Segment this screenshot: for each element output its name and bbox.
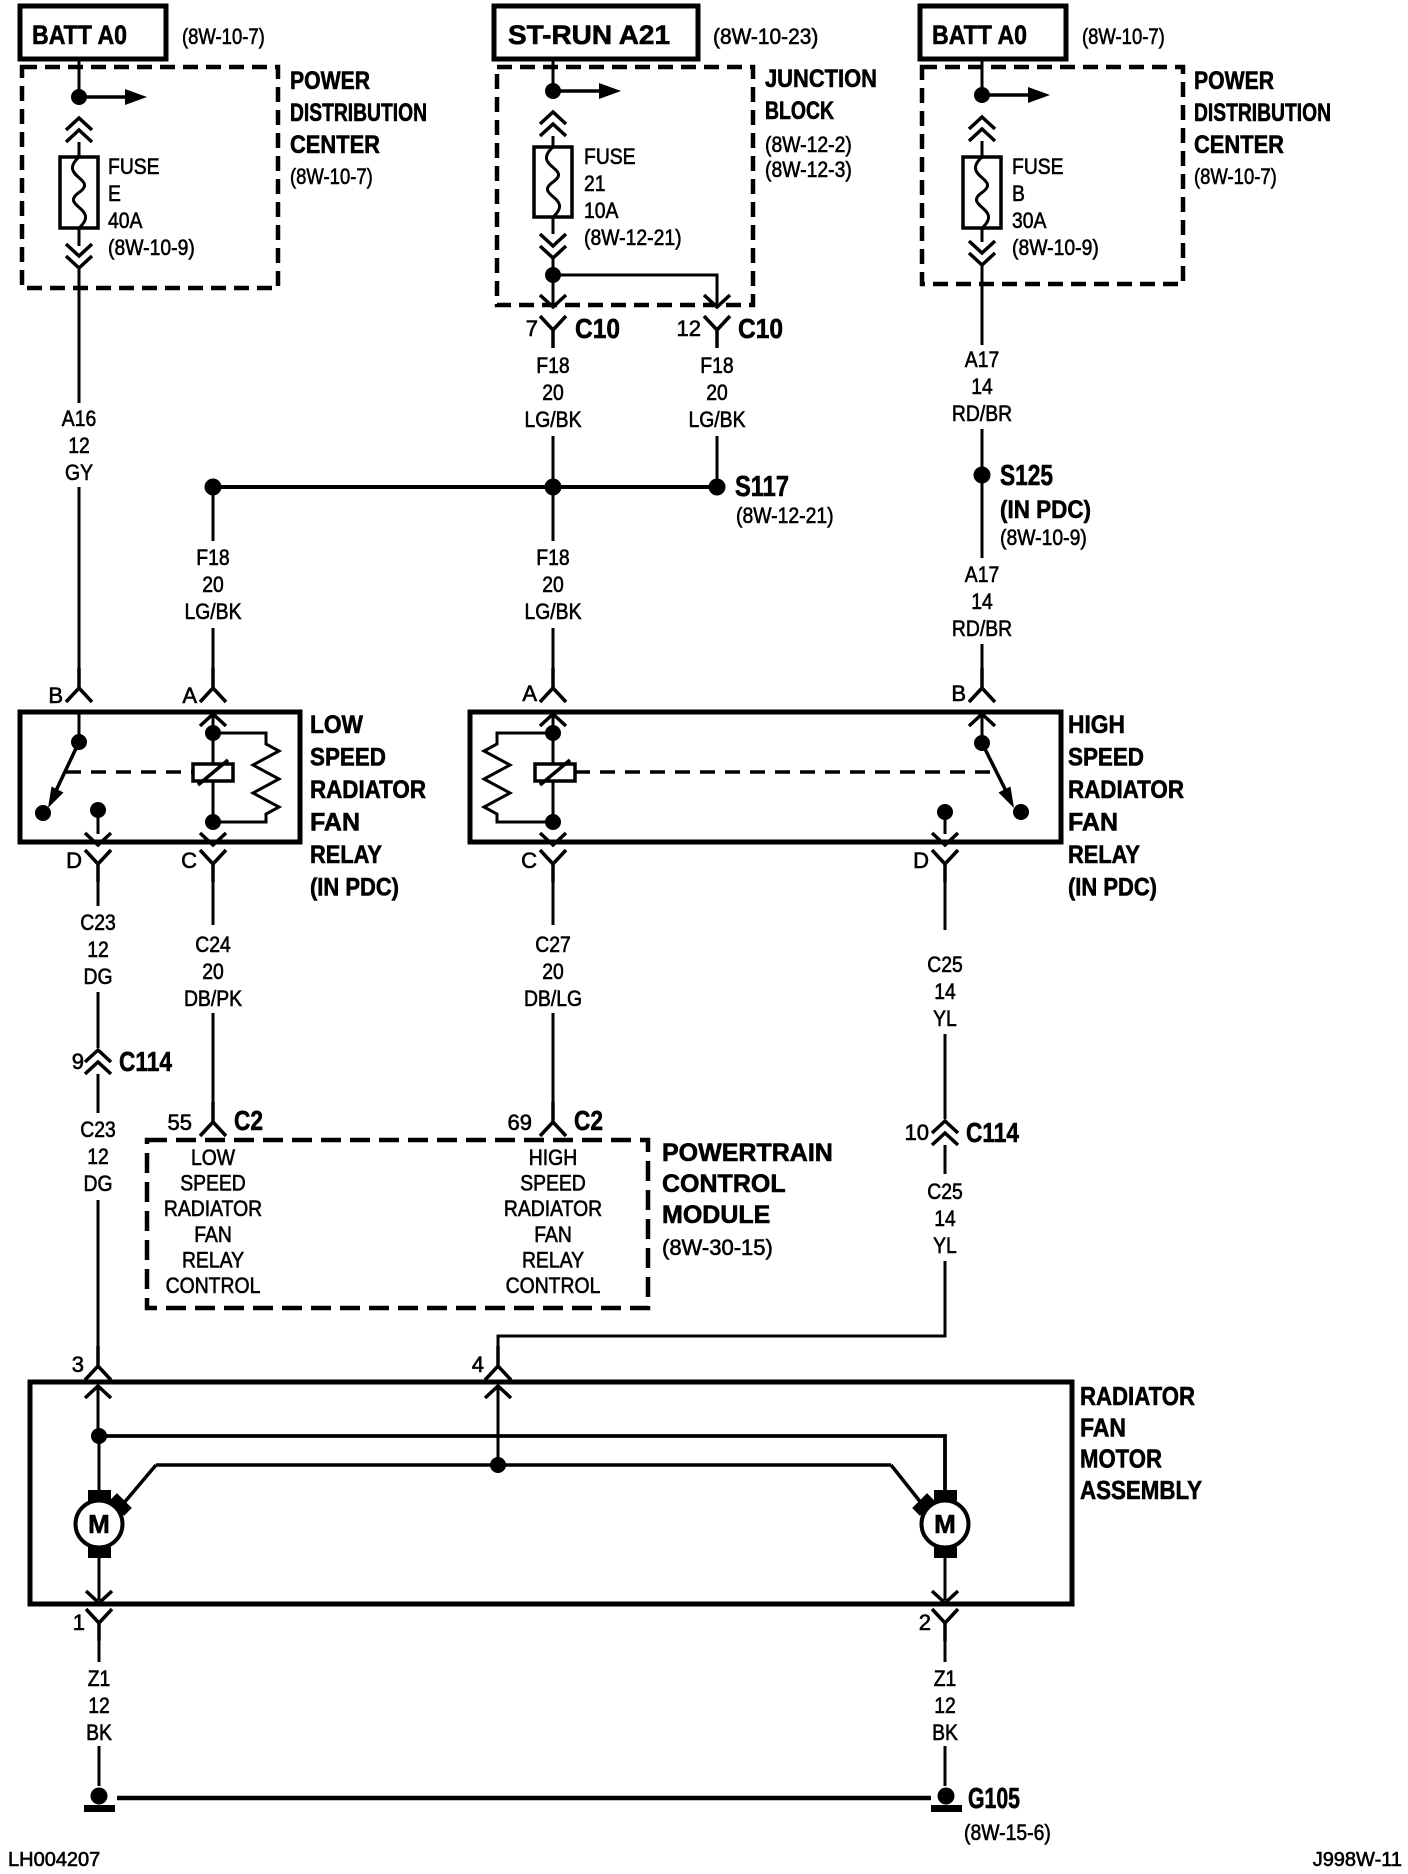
svg-text:C25: C25	[927, 952, 963, 977]
switch common contact (high relay)	[974, 735, 990, 751]
svg-text:A17: A17	[965, 562, 999, 587]
svg-text:14: 14	[971, 589, 993, 614]
chevron C10 pin 12 at junction block edge	[704, 295, 730, 307]
svg-text:21: 21	[584, 171, 606, 196]
svg-text:(8W-12-2): (8W-12-2)	[765, 132, 852, 157]
svg-text:(8W-15-6): (8W-15-6)	[964, 1820, 1051, 1845]
chevron pin D at high relay edge	[932, 833, 958, 845]
pin A half (high speed relay)	[540, 668, 566, 702]
svg-text:HIGH: HIGH	[529, 1145, 577, 1170]
pin 55 half of C2	[200, 1102, 226, 1136]
wire fuse E output leaving PDC (left)	[78, 268, 81, 403]
svg-text:FUSE: FUSE	[1012, 154, 1064, 179]
chevron pin 3 inside motor box	[85, 1386, 111, 1398]
svg-text:40A: 40A	[108, 208, 143, 233]
chevron pin A inside low relay	[200, 714, 226, 726]
svg-text:POWER: POWER	[290, 67, 370, 95]
switch arm (low relay)	[48, 742, 79, 808]
svg-text:(8W-12-21): (8W-12-21)	[736, 503, 834, 528]
svg-text:(8W-10-7): (8W-10-7)	[1194, 164, 1277, 189]
svg-text:1: 1	[73, 1610, 85, 1635]
wire contact D to edge (high)	[944, 812, 947, 834]
svg-text:20: 20	[706, 380, 728, 405]
junction block box (dashed)	[497, 67, 753, 305]
svg-text:14: 14	[934, 979, 956, 1004]
svg-text:A17: A17	[965, 347, 999, 372]
pin 4 half (motor assembly)	[485, 1346, 511, 1380]
svg-text:FAN: FAN	[1068, 809, 1118, 837]
svg-text:(IN PDC): (IN PDC)	[1068, 874, 1157, 902]
svg-text:SPEED: SPEED	[520, 1171, 586, 1196]
svg-text:C2: C2	[574, 1105, 603, 1136]
pin C half (low relay)	[200, 850, 226, 882]
svg-text:(IN PDC): (IN PDC)	[1000, 496, 1091, 524]
wire S125 to label	[981, 483, 984, 558]
ground terminal left	[84, 1788, 115, 1813]
connector chevrons below fuse E	[66, 244, 92, 268]
svg-text:C23: C23	[80, 910, 116, 935]
chevron pin B inside high relay	[969, 714, 995, 726]
pin C half (high relay)	[540, 850, 566, 882]
node fuse 21 output	[545, 267, 561, 283]
power feed box BATT A0 (left)	[20, 6, 166, 59]
wire relay D to label (left chain)	[97, 882, 100, 906]
svg-text:(8W-30-15): (8W-30-15)	[662, 1235, 773, 1260]
connector chevrons below fuse B	[969, 241, 995, 265]
svg-text:C114: C114	[966, 1117, 1019, 1148]
bus wire pin 4 to both motors	[156, 1463, 891, 1467]
svg-text:12: 12	[87, 1144, 109, 1169]
chevron C10 pin 7 at junction block edge	[540, 295, 566, 307]
svg-text:LG/BK: LG/BK	[525, 599, 582, 624]
svg-text:F18: F18	[536, 545, 569, 570]
switch common contact (low relay)	[71, 734, 87, 750]
label S117	[735, 471, 834, 528]
ground G105	[931, 1788, 962, 1813]
wire C10-12 to splice S117	[716, 436, 719, 479]
wire node to left motor	[98, 1436, 101, 1494]
svg-text:C10: C10	[738, 313, 783, 344]
svg-text:(8W-10-7): (8W-10-7)	[182, 24, 265, 49]
svg-text:F18: F18	[536, 353, 569, 378]
svg-text:C23: C23	[80, 1117, 116, 1142]
wire Z1 to ground G105 (left)	[98, 1746, 101, 1786]
splice S117	[709, 479, 726, 496]
svg-text:GY: GY	[65, 460, 93, 485]
svg-text:CONTROL: CONTROL	[506, 1273, 601, 1298]
fuse 21	[534, 147, 572, 217]
svg-text:30A: 30A	[1012, 208, 1047, 233]
svg-text:C114: C114	[119, 1046, 172, 1077]
wire relay C to label (C24)	[212, 882, 215, 925]
splice dot left branch	[205, 479, 222, 496]
connector chevrons above fuse B	[969, 117, 995, 141]
svg-text:(8W-10-7): (8W-10-7)	[290, 164, 373, 189]
svg-text:(8W-12-3): (8W-12-3)	[765, 157, 852, 182]
pin D half (low relay)	[85, 850, 111, 882]
svg-text:LG/BK: LG/BK	[525, 407, 582, 432]
svg-text:DG: DG	[84, 964, 113, 989]
radiator fan motor assembly box	[30, 1382, 1072, 1604]
chevron pin 4 inside motor box	[485, 1386, 511, 1398]
svg-text:RELAY: RELAY	[1068, 841, 1140, 869]
svg-text:20: 20	[202, 572, 224, 597]
relay coil (low)	[193, 760, 233, 785]
wire BATT A0 to node (right)	[981, 59, 984, 92]
wire right motor to pin 2	[944, 1558, 947, 1600]
svg-text:RADIATOR: RADIATOR	[1080, 1381, 1195, 1411]
svg-text:RADIATOR: RADIATOR	[1068, 776, 1184, 804]
svg-text:Z1: Z1	[934, 1666, 957, 1691]
wire relay C to label (C27)	[552, 882, 555, 925]
wire C25 to motor pin 4	[498, 1261, 945, 1352]
svg-text:ST-RUN A21: ST-RUN A21	[508, 20, 670, 50]
wire coil to lower node (high)	[552, 781, 555, 822]
svg-text:DISTRIBUTION: DISTRIBUTION	[290, 99, 427, 127]
svg-text:POWERTRAIN: POWERTRAIN	[662, 1139, 833, 1167]
svg-text:C: C	[521, 848, 537, 873]
switch arm (high relay)	[982, 743, 1014, 808]
relay coil dashed actuator line (high)	[575, 770, 990, 774]
pin 7 half of C10	[540, 316, 566, 348]
svg-text:POWER: POWER	[1194, 67, 1274, 95]
label POWER DISTRIBUTION CENTER (left)	[290, 67, 427, 189]
splice dot center branch	[545, 479, 562, 496]
switch normally-open contact (low relay)	[35, 805, 51, 821]
contact D node (low relay)	[90, 802, 106, 818]
svg-text:14: 14	[934, 1206, 956, 1231]
svg-text:C27: C27	[535, 932, 571, 957]
svg-text:20: 20	[542, 959, 564, 984]
svg-text:69: 69	[508, 1110, 532, 1135]
label FUSE B 30A	[1012, 154, 1099, 260]
svg-text:BK: BK	[86, 1720, 112, 1745]
switch normally-open contact (high relay)	[1013, 804, 1029, 820]
svg-text:(8W-10-9): (8W-10-9)	[1012, 235, 1099, 260]
pin 3 half (motor assembly)	[85, 1346, 111, 1380]
svg-text:A: A	[522, 681, 537, 706]
splice bus S117	[213, 485, 717, 489]
connector C114 pin 9 chevrons	[85, 1050, 111, 1074]
svg-text:DISTRIBUTION: DISTRIBUTION	[1194, 99, 1331, 127]
wire bus to right motor brush	[891, 1465, 922, 1504]
connector chevrons above fuse E	[66, 118, 92, 142]
wire A17 to relay pin B	[981, 644, 984, 688]
svg-text:BATT A0: BATT A0	[32, 20, 127, 50]
svg-text:12: 12	[934, 1693, 956, 1718]
svg-text:4: 4	[472, 1352, 484, 1377]
svg-text:9: 9	[72, 1049, 84, 1074]
svg-text:LOW: LOW	[191, 1145, 235, 1170]
low speed radiator fan relay box	[20, 712, 300, 842]
right fan motor M2	[912, 1490, 968, 1558]
svg-text:2: 2	[919, 1610, 931, 1635]
wire left motor to pin 1	[98, 1558, 101, 1600]
svg-text:LH004207: LH004207	[8, 1849, 100, 1871]
node pin 4 bus	[490, 1457, 506, 1473]
pin B half (high speed relay)	[969, 668, 995, 702]
pin 69 half of C2	[540, 1102, 566, 1136]
svg-text:12: 12	[87, 937, 109, 962]
connector C114 pin 10 chevrons	[932, 1121, 958, 1145]
pin 12 half of C10	[704, 316, 730, 348]
svg-text:YL: YL	[933, 1233, 957, 1258]
wire fuse B output leaving PDC (right)	[981, 265, 984, 345]
svg-text:HIGH: HIGH	[1068, 711, 1125, 739]
svg-text:BLOCK: BLOCK	[765, 97, 834, 125]
svg-text:(8W-10-9): (8W-10-9)	[108, 235, 195, 260]
splice S125	[974, 467, 991, 484]
wire F18 to relay pin A (high)	[552, 628, 555, 688]
wire C10-7 to splice S117	[552, 436, 555, 479]
svg-text:D: D	[66, 848, 82, 873]
wire fuse 21 output to junction node	[552, 258, 555, 303]
label S125 (IN PDC)	[1000, 460, 1091, 550]
svg-text:BK: BK	[932, 1720, 958, 1745]
svg-text:C10: C10	[575, 313, 620, 344]
power distribution center box (right, dashed)	[922, 67, 1183, 284]
pin B half (low speed relay)	[66, 668, 92, 702]
svg-text:RADIATOR: RADIATOR	[310, 776, 426, 804]
label FUSE E 40A	[108, 154, 195, 260]
chevron pin D at low relay edge	[85, 833, 111, 845]
label POWER DISTRIBUTION CENTER (right)	[1194, 67, 1331, 189]
svg-text:B: B	[48, 683, 63, 708]
svg-text:DG: DG	[84, 1171, 113, 1196]
wire relay D to label (C25 upper)	[944, 882, 947, 930]
svg-text:SPEED: SPEED	[180, 1171, 246, 1196]
coil node upper (low relay)	[205, 725, 221, 741]
svg-text:(8W-12-21): (8W-12-21)	[584, 225, 682, 250]
svg-text:FAN: FAN	[1080, 1412, 1126, 1442]
svg-text:RELAY: RELAY	[522, 1247, 584, 1272]
svg-text:S125: S125	[1000, 460, 1053, 492]
svg-text:E: E	[108, 181, 121, 206]
svg-text:20: 20	[542, 572, 564, 597]
svg-text:12: 12	[68, 433, 90, 458]
power distribution center box (left, dashed)	[22, 67, 278, 288]
wire junction node to C10 pin 12 branch	[553, 275, 717, 303]
svg-text:LG/BK: LG/BK	[185, 599, 242, 624]
svg-text:(8W-10-23): (8W-10-23)	[713, 24, 818, 49]
svg-text:ASSEMBLY: ASSEMBLY	[1080, 1475, 1202, 1505]
node ST-RUN feed with arrow	[545, 83, 621, 99]
svg-text:C: C	[181, 848, 197, 873]
svg-text:M: M	[88, 1509, 110, 1539]
svg-text:55: 55	[168, 1110, 192, 1135]
wire pin 3 to bus node	[97, 1386, 100, 1432]
node fused B+ (left) with feed arrow	[71, 89, 147, 105]
connector chevrons below fuse 21	[540, 234, 566, 258]
coil node lower (low relay)	[205, 814, 221, 830]
svg-text:RD/BR: RD/BR	[952, 401, 1012, 426]
coil suppression resistor (high relay)	[484, 733, 553, 822]
wire chevrons to fuse B	[981, 141, 984, 157]
svg-text:CONTROL: CONTROL	[662, 1170, 786, 1198]
label FUSE 21 10A	[584, 144, 682, 250]
bus wire pin3 node to right motor	[99, 1436, 945, 1494]
svg-text:G105: G105	[968, 1783, 1020, 1815]
wire A16 to relay pin B	[78, 487, 81, 688]
svg-text:20: 20	[202, 959, 224, 984]
wire C24 to PCM pin 55	[212, 1013, 215, 1105]
wire pin 4 to bus node	[497, 1386, 500, 1465]
svg-text:JUNCTION: JUNCTION	[765, 65, 877, 93]
svg-text:12: 12	[677, 316, 701, 341]
chevron pin A inside high relay	[540, 714, 566, 726]
svg-text:D: D	[913, 848, 929, 873]
wire contact D to edge (low)	[97, 810, 100, 834]
svg-text:CENTER: CENTER	[1194, 131, 1284, 159]
wire relay pin B to switch common (low)	[78, 712, 81, 740]
wire ST-RUN A21 to node	[552, 59, 555, 88]
label POWERTRAIN CONTROL MODULE	[662, 1139, 833, 1260]
wire pin 2 to label Z1	[944, 1641, 947, 1662]
svg-text:J998W-11: J998W-11	[1313, 1849, 1402, 1871]
wire relay pin B to switch common (high)	[981, 714, 984, 740]
svg-text:MOTOR: MOTOR	[1080, 1444, 1162, 1474]
svg-text:10A: 10A	[584, 198, 619, 223]
svg-text:S117: S117	[735, 471, 789, 503]
svg-text:SPEED: SPEED	[1068, 744, 1144, 772]
wire pin A to coil node (low)	[212, 714, 215, 764]
svg-text:B: B	[1012, 181, 1025, 206]
coil node lower (high relay)	[545, 814, 561, 830]
svg-text:FUSE: FUSE	[584, 144, 636, 169]
node fused B+ (right) with feed arrow	[974, 87, 1050, 103]
svg-text:C2: C2	[234, 1105, 263, 1136]
wire pin 1 to label Z1	[98, 1641, 101, 1662]
chevron pin C at high relay edge	[540, 833, 566, 845]
svg-text:MODULE: MODULE	[662, 1201, 770, 1229]
svg-text:(8W-10-9): (8W-10-9)	[1000, 525, 1087, 550]
pin A half (low speed relay)	[200, 668, 226, 702]
svg-text:(IN PDC): (IN PDC)	[310, 874, 399, 902]
wire C23 to motor pin 3	[97, 1200, 100, 1352]
wire fuse 21 to chevrons	[552, 217, 555, 234]
svg-text:FAN: FAN	[534, 1222, 572, 1247]
svg-text:F18: F18	[700, 353, 733, 378]
svg-text:FAN: FAN	[194, 1222, 232, 1247]
svg-text:A: A	[182, 683, 197, 708]
pin 2 half (motor assembly)	[932, 1609, 958, 1641]
wire A17 to splice S125	[981, 429, 984, 467]
svg-text:CENTER: CENTER	[290, 131, 380, 159]
fuse B	[963, 157, 1001, 228]
svg-text:(8W-10-7): (8W-10-7)	[1082, 24, 1165, 49]
fuse E	[60, 157, 98, 228]
left fan motor M1	[76, 1490, 132, 1558]
svg-text:RELAY: RELAY	[182, 1247, 244, 1272]
svg-text:FAN: FAN	[310, 809, 360, 837]
svg-text:DB/PK: DB/PK	[184, 986, 242, 1011]
wire C25 to connector C114 pin 10	[944, 1034, 947, 1119]
wire C27 to PCM pin 69	[552, 1013, 555, 1105]
wire chevron to fuse E	[78, 142, 81, 157]
chevron pin C at low relay edge	[200, 833, 226, 845]
wire splice to F18 label (left branch)	[212, 495, 215, 541]
svg-text:A16: A16	[62, 406, 96, 431]
svg-text:7: 7	[526, 316, 538, 341]
wire bus to left motor brush	[123, 1465, 156, 1504]
svg-text:YL: YL	[933, 1006, 957, 1031]
svg-text:F18: F18	[196, 545, 229, 570]
power feed box ST-RUN A21	[494, 6, 698, 59]
pin 1 half (motor assembly)	[86, 1609, 112, 1641]
svg-text:LOW: LOW	[310, 711, 363, 739]
svg-text:M: M	[934, 1509, 956, 1539]
label G105	[964, 1783, 1051, 1845]
high speed radiator fan relay box	[470, 712, 1061, 842]
svg-text:3: 3	[72, 1352, 84, 1377]
wire C114 to label (C25 lower)	[944, 1145, 947, 1174]
svg-text:DB/LG: DB/LG	[524, 986, 582, 1011]
wire coil to lower node (low)	[212, 781, 215, 822]
svg-text:RADIATOR: RADIATOR	[164, 1196, 262, 1221]
powertrain control module box (dashed)	[147, 1140, 648, 1308]
wire C114 to label	[97, 1074, 100, 1113]
svg-text:SPEED: SPEED	[310, 744, 386, 772]
svg-text:20: 20	[542, 380, 564, 405]
svg-text:RADIATOR: RADIATOR	[504, 1196, 602, 1221]
svg-text:14: 14	[971, 374, 993, 399]
power feed box BATT A0 (right)	[920, 6, 1066, 59]
wire fuse E to chevrons	[78, 228, 81, 246]
svg-text:LG/BK: LG/BK	[689, 407, 746, 432]
wire chevrons to fuse 21	[552, 136, 555, 147]
svg-text:CONTROL: CONTROL	[166, 1273, 261, 1298]
svg-text:B: B	[951, 681, 966, 706]
wire Z1 to ground G105 (right)	[944, 1746, 947, 1786]
svg-text:RELAY: RELAY	[310, 841, 382, 869]
wire fuse B to chevrons	[981, 228, 984, 242]
wire F18 to relay pin A (low)	[212, 628, 215, 688]
svg-text:C24: C24	[195, 932, 231, 957]
svg-text:RD/BR: RD/BR	[952, 616, 1012, 641]
contact D node (high relay)	[937, 804, 953, 820]
relay coil (high)	[535, 760, 575, 785]
wire pin A to coil node (high)	[552, 714, 555, 764]
label JUNCTION BLOCK	[765, 65, 877, 182]
wire BATT A0 to node (left)	[78, 59, 81, 93]
ground bus wire	[117, 1796, 931, 1801]
coil suppression resistor (low relay)	[213, 733, 279, 822]
svg-text:C25: C25	[927, 1179, 963, 1204]
coil node upper (high relay)	[545, 725, 561, 741]
svg-text:12: 12	[88, 1693, 110, 1718]
wire splice to F18 label (center branch)	[552, 495, 555, 541]
svg-text:Z1: Z1	[88, 1666, 111, 1691]
relay coil dashed actuator line (low)	[66, 770, 193, 774]
svg-text:BATT A0: BATT A0	[932, 20, 1027, 50]
chevron pin 2 at motor box edge	[932, 1591, 958, 1603]
node pin 3 bus	[91, 1428, 107, 1444]
connector chevrons above fuse 21	[540, 112, 566, 136]
pin D half (high relay)	[932, 850, 958, 882]
wire C23 to connector C114 pin 9	[97, 992, 100, 1048]
svg-text:10: 10	[905, 1120, 929, 1145]
chevron pin 1 at motor box edge	[86, 1591, 112, 1603]
svg-text:FUSE: FUSE	[108, 154, 160, 179]
